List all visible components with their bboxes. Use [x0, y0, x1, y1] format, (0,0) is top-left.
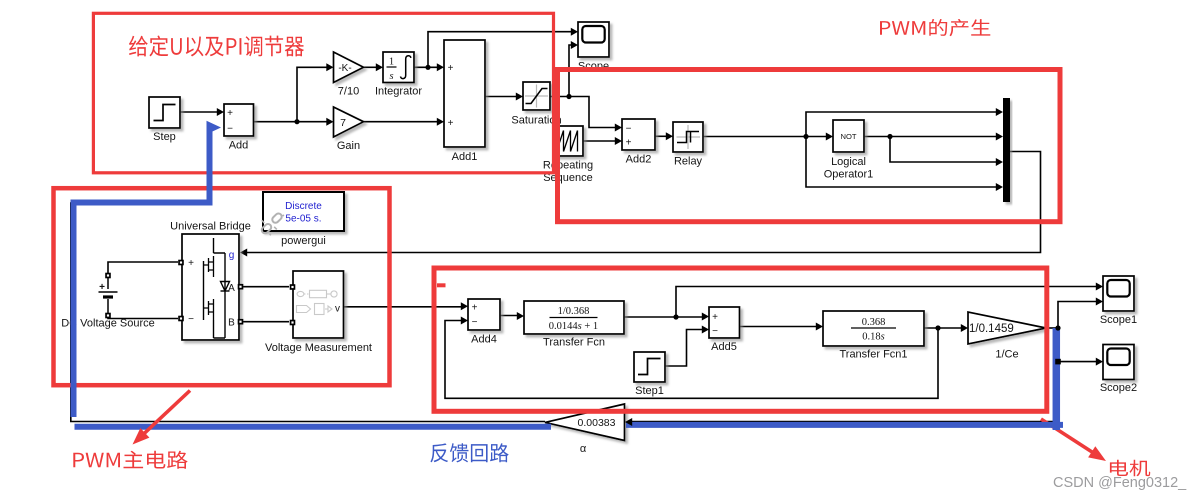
svg-text:NOT: NOT	[840, 132, 856, 141]
svg-text:Transfer Fcn1: Transfer Fcn1	[839, 349, 907, 361]
svg-text:Discrete: Discrete	[285, 201, 322, 212]
svg-text:−: −	[472, 317, 478, 328]
svg-text:−: −	[626, 124, 632, 135]
svg-text:Voltage Measurement: Voltage Measurement	[265, 342, 372, 354]
svg-text:g: g	[229, 250, 235, 261]
svg-text:0.368: 0.368	[862, 317, 886, 328]
svg-text:Integrator: Integrator	[375, 86, 422, 98]
svg-text:powergui: powergui	[281, 235, 326, 247]
svg-text:7/10: 7/10	[338, 86, 359, 98]
svg-text:Step: Step	[153, 131, 176, 143]
svg-text:+: +	[626, 138, 632, 149]
svg-text:Scope2: Scope2	[1100, 382, 1137, 394]
svg-text:Add1: Add1	[452, 151, 478, 163]
svg-text:+: +	[99, 282, 105, 293]
svg-text:5e-05 s.: 5e-05 s.	[285, 214, 321, 225]
svg-text:1: 1	[389, 57, 394, 68]
svg-text:Add5: Add5	[711, 341, 737, 353]
svg-text:+: +	[448, 118, 454, 129]
svg-text:−: −	[712, 326, 718, 337]
svg-text:Add4: Add4	[471, 334, 497, 346]
svg-text:−: −	[227, 124, 233, 135]
svg-text:Add2: Add2	[626, 154, 652, 166]
svg-text:Scope1: Scope1	[1100, 314, 1137, 326]
svg-text:+: +	[227, 108, 233, 119]
svg-text:Repeating: Repeating	[543, 160, 593, 172]
svg-text:1/0.368: 1/0.368	[558, 306, 590, 317]
svg-text:+: +	[448, 63, 454, 74]
svg-text:α: α	[580, 443, 587, 455]
svg-text:+: +	[712, 312, 718, 323]
svg-text:Relay: Relay	[674, 156, 703, 168]
svg-text:Operator1: Operator1	[824, 169, 874, 181]
svg-text:+: +	[188, 258, 194, 269]
svg-text:Add: Add	[229, 140, 249, 152]
svg-text:Step1: Step1	[635, 385, 664, 397]
svg-text:Logical: Logical	[831, 156, 866, 168]
svg-text:CSDN @Feng0312_: CSDN @Feng0312_	[1053, 475, 1187, 491]
svg-text:Gain: Gain	[337, 140, 360, 152]
svg-text:Universal Bridge: Universal Bridge	[170, 221, 251, 233]
svg-text:A: A	[228, 283, 235, 294]
svg-text:Transfer Fcn: Transfer Fcn	[543, 337, 605, 349]
svg-text:s: s	[389, 71, 393, 82]
svg-text:-K-: -K-	[338, 63, 351, 74]
svg-text:0.18s: 0.18s	[862, 332, 884, 343]
svg-text:7: 7	[340, 117, 346, 129]
svg-text:−: −	[188, 314, 194, 325]
svg-text:0.0144s + 1: 0.0144s + 1	[549, 321, 598, 332]
svg-text:v: v	[335, 304, 340, 315]
svg-text:+: +	[472, 303, 478, 314]
svg-text:1/0.1459: 1/0.1459	[969, 323, 1014, 335]
svg-text:0.00383: 0.00383	[578, 417, 616, 429]
svg-text:1/Ce: 1/Ce	[995, 349, 1018, 361]
svg-text:B: B	[228, 318, 235, 329]
